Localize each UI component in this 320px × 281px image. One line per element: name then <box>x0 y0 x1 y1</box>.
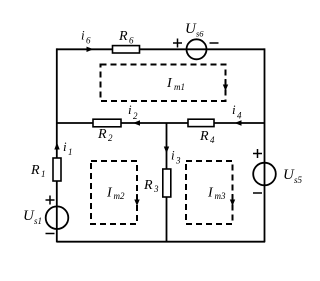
svg-text:i: i <box>63 139 67 154</box>
current arrow i6 <box>87 47 94 52</box>
wire left vertical <box>56 48 58 242</box>
svg-text:2: 2 <box>133 111 138 121</box>
svg-text:s6: s6 <box>196 29 204 39</box>
source U_s1 <box>46 206 69 229</box>
current arrow i1 <box>54 143 59 150</box>
mesh arrow I_m2 <box>136 194 138 201</box>
resistor R2 <box>93 119 121 127</box>
wire top <box>57 48 265 50</box>
wire bottom <box>57 241 266 243</box>
resistor R3 <box>163 169 171 197</box>
svg-text:m3: m3 <box>215 191 226 201</box>
source U_s6 <box>187 39 207 59</box>
svg-text:4: 4 <box>237 111 242 121</box>
minus sign U_s1 <box>46 233 55 235</box>
svg-text:R: R <box>30 163 40 178</box>
mesh loop I_m1 dashed box <box>101 65 226 102</box>
svg-text:R: R <box>199 129 209 144</box>
svg-text:6: 6 <box>86 36 91 46</box>
svg-text:3: 3 <box>153 184 159 194</box>
current arrow i3 <box>164 147 169 154</box>
svg-text:R: R <box>143 178 153 193</box>
mesh arrow I_m1 <box>225 79 227 86</box>
minus sign U_s5 <box>253 192 262 194</box>
svg-text:m1: m1 <box>174 82 185 92</box>
svg-text:4: 4 <box>210 135 215 145</box>
svg-text:s5: s5 <box>294 175 303 185</box>
plus sign U_s5 <box>253 149 262 158</box>
svg-text:6: 6 <box>129 36 134 46</box>
svg-text:3: 3 <box>175 156 181 166</box>
svg-text:i: i <box>171 148 175 163</box>
svg-text:R: R <box>118 29 128 44</box>
plus sign U_s1 <box>46 196 55 205</box>
svg-text:s1: s1 <box>34 216 42 226</box>
resistor R4 <box>188 119 214 126</box>
current arrow i2 <box>133 120 140 125</box>
plus sign U_s6 <box>173 39 182 48</box>
wire right vertical <box>264 48 266 242</box>
minus sign U_s6 <box>210 42 219 44</box>
svg-text:i: i <box>232 102 236 117</box>
mesh loop I_m3 dashed box <box>186 161 233 224</box>
mesh loop I_m2 dashed box <box>91 161 137 224</box>
svg-text:1: 1 <box>68 147 73 157</box>
wire middle vertical <box>166 123 168 242</box>
svg-text:1: 1 <box>41 169 46 179</box>
svg-text:R: R <box>97 127 107 142</box>
svg-text:2: 2 <box>108 133 113 143</box>
current arrow i4 <box>235 120 242 125</box>
wire middle horizontal <box>57 122 265 124</box>
resistor R6 <box>113 46 140 53</box>
source U_s5 <box>253 163 276 186</box>
resistor R1 <box>53 158 61 181</box>
mesh arrow I_m3 <box>232 194 234 201</box>
svg-text:i: i <box>81 28 85 43</box>
svg-text:m2: m2 <box>114 191 125 201</box>
svg-text:i: i <box>128 102 132 117</box>
